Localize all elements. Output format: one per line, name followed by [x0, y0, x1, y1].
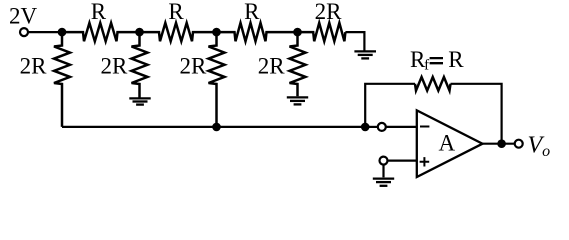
svg-text:2R: 2R — [258, 54, 286, 79]
resistor R2 (horizontal R, with leads) — [140, 23, 217, 41]
svg-text:2R: 2R — [100, 54, 128, 79]
wire op-amp output to output terminal — [483, 143, 515, 145]
node (inverting summing junction) — [361, 123, 370, 132]
node (output junction) — [497, 139, 506, 148]
svg-text:R: R — [448, 47, 464, 72]
node N1 (junction dot) — [58, 28, 67, 37]
wire non-inverting terminal to op-amp — [388, 160, 417, 162]
op-amp minus sign — [420, 126, 429, 128]
ground (non-inverting input) — [373, 179, 394, 186]
node (bottom wire, under N3) — [212, 123, 221, 132]
feedback wire (left + top left segment) — [365, 84, 415, 127]
output terminal (open circle) — [515, 140, 523, 148]
resistor R4 (horizontal 2R, with leads) — [298, 23, 346, 41]
ground (below 2R #2) — [129, 98, 150, 104]
node N4 (junction dot) — [293, 28, 302, 37]
resistor 2R #1 (vertical, node N1 to bottom wire) — [54, 32, 70, 127]
op-amp A (triangle) — [417, 110, 483, 177]
label = sign — [430, 58, 443, 63]
ground (below 2R #4) — [287, 97, 308, 104]
wire terminal to node N1 — [28, 31, 62, 33]
svg-text:R: R — [168, 0, 184, 24]
svg-text:Vo: Vo — [528, 132, 551, 160]
resistor Rf (feedback) — [415, 77, 451, 91]
svg-text:R: R — [91, 0, 107, 24]
resistor 2R #2 (vertical, node N2 to ground) — [132, 32, 148, 98]
non-inverting input terminal (open circle) — [380, 157, 388, 165]
svg-text:2V: 2V — [9, 3, 38, 28]
wire node to inverting terminal circle — [365, 126, 378, 128]
resistor R3 (horizontal R, with leads) — [217, 23, 298, 41]
input terminal (open circle) — [20, 28, 28, 36]
wire R4 to ground — [345, 32, 364, 51]
resistor 2R #3 (vertical, node N3 to bottom wire) — [209, 32, 225, 127]
svg-text:2R: 2R — [180, 54, 208, 79]
svg-text:2R: 2R — [20, 54, 48, 79]
svg-text:A: A — [438, 131, 455, 156]
wire non-inverting terminal to ground — [382, 165, 384, 178]
svg-text:Rf: Rf — [410, 47, 429, 74]
node N3 (junction dot) — [212, 28, 221, 37]
svg-text:2R: 2R — [315, 0, 343, 24]
op-amp plus sign — [420, 157, 430, 166]
node N2 (junction dot) — [135, 28, 144, 37]
ground (top right) — [354, 51, 376, 58]
inverting input terminal (open circle) — [378, 123, 386, 131]
resistor 2R #4 (vertical, node N4 to ground) — [290, 32, 306, 96]
svg-text:R: R — [244, 0, 260, 24]
resistor R1 (horizontal R, with leads) — [62, 23, 140, 41]
wire inverting terminal to op-amp — [386, 126, 417, 128]
feedback wire (top right + right segment) — [451, 84, 502, 144]
bottom wire (N1 to inverting node) — [62, 126, 365, 128]
